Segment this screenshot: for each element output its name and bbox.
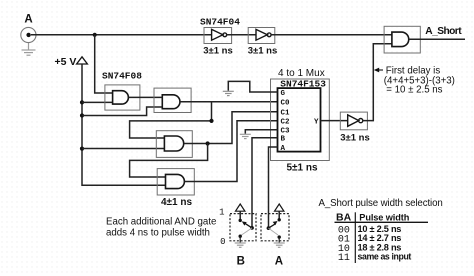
input connector A — [21, 27, 36, 42]
svg-text:C0: C0 — [281, 100, 291, 108]
svg-text:1: 1 — [219, 207, 224, 217]
svg-text:G: G — [281, 90, 286, 98]
junction: loop corner dot — [209, 119, 213, 123]
wire: U2B out to mux C0 — [180, 101, 278, 103]
svg-text:A: A — [281, 145, 286, 153]
junction: A tap — [93, 33, 97, 37]
AND U4 final — [392, 32, 409, 47]
wire: A_Short output — [409, 38, 465, 40]
power +5V symbol — [77, 57, 88, 64]
junction: rail to U2B — [80, 113, 84, 117]
wire: A tap down to AND U2A top input — [95, 35, 113, 93]
ground (mux G pin) — [223, 91, 234, 95]
annotation: first delay arrow — [374, 68, 383, 73]
wire: rail to U2B bottom input — [82, 107, 162, 116]
svg-text:11: 11 — [338, 253, 350, 264]
svg-text:Y: Y — [314, 118, 319, 126]
annotation: first delay text — [384, 66, 455, 96]
wire: mux G pin to ground — [228, 81, 277, 92]
wire: U2B out loop down to U2C top input — [130, 102, 212, 138]
svg-text:same as input: same as input — [358, 252, 412, 262]
svg-text:SN74F04: SN74F04 — [200, 16, 240, 27]
junction: U2C out tap — [206, 141, 210, 145]
wire: mux Y to inverter U1C — [321, 120, 348, 122]
inverter U1A — [212, 29, 227, 40]
switch B box — [230, 214, 256, 241]
wire: rail to U2A bottom input — [82, 101, 113, 103]
switch B lever — [239, 219, 254, 235]
svg-text:C2: C2 — [281, 119, 291, 127]
wire: mux A select to switch A — [269, 147, 278, 228]
AND U2C box — [156, 131, 192, 158]
wire: U1C out up to final AND bottom input — [363, 44, 392, 121]
ground (input connector) — [22, 43, 36, 56]
svg-text:5±1 ns: 5±1 ns — [286, 162, 317, 173]
svg-text:Pulse width: Pulse width — [359, 213, 409, 223]
wire: rail to U2C bottom input — [82, 148, 164, 150]
wire: U1A to U1B — [227, 34, 256, 36]
svg-text:C3: C3 — [281, 128, 291, 136]
svg-text:B: B — [237, 256, 245, 268]
wire: U1B to final AND top input — [271, 34, 392, 36]
AND U2B — [162, 95, 180, 109]
switch B ground post — [239, 235, 242, 243]
AND U2D box — [157, 169, 194, 195]
AND U2B box — [154, 88, 191, 112]
junction: rail to U2A — [80, 100, 84, 104]
annotation: AND gate note — [106, 216, 216, 238]
wire: A to inverter chain — [31, 34, 212, 36]
table vertical rule — [354, 212, 356, 263]
wire: mux B select to switch B — [252, 138, 278, 228]
switch A power arrow — [275, 204, 284, 220]
wire: +5V rail down and to U2D bottom input — [82, 64, 166, 185]
wire: U2C out loop down to U2D top input — [130, 144, 208, 178]
switch A ground post — [278, 235, 281, 242]
table pulse width values — [358, 224, 412, 262]
inverter U1B box — [248, 28, 275, 44]
svg-text:adds 4 ns to pulse width: adds 4 ns to pulse width — [106, 228, 210, 239]
AND U2D — [166, 174, 185, 188]
wire: U2A out to U2B top input — [128, 96, 162, 98]
switch A lever — [267, 218, 281, 235]
svg-text:4±1 ns: 4±1 ns — [161, 197, 192, 208]
wire: U2D out to mux C2 riser — [184, 121, 277, 182]
svg-text:A: A — [24, 14, 32, 26]
ground (switch B) — [235, 243, 246, 247]
switch B power arrow — [236, 204, 245, 220]
svg-text:A_Short pulse width selection: A_Short pulse width selection — [319, 198, 443, 209]
AND U2A box — [105, 85, 140, 110]
table header rule — [335, 221, 429, 223]
AND U2A — [113, 91, 129, 104]
svg-text:B: B — [281, 136, 286, 144]
wire: mux C3 to ground — [245, 130, 277, 134]
mux outer box — [271, 79, 330, 161]
svg-text:= 10 ± 2.5 ns: = 10 ± 2.5 ns — [386, 85, 442, 96]
switch A box — [261, 214, 289, 241]
AND U2C — [164, 136, 183, 151]
svg-text:+5 V: +5 V — [55, 56, 77, 68]
mux U3 (SN74F153) — [278, 88, 321, 152]
inverter U1A box — [204, 28, 232, 44]
table BA column values — [338, 225, 350, 264]
svg-text:0: 0 — [220, 237, 225, 247]
svg-text:Each additional AND gate: Each additional AND gate — [106, 216, 216, 227]
svg-text:3±1 ns: 3±1 ns — [248, 46, 278, 57]
ground (switch A) — [274, 243, 285, 247]
svg-text:3±1 ns: 3±1 ns — [203, 46, 233, 57]
svg-text:C1: C1 — [281, 110, 291, 118]
AND U4 final box — [384, 26, 420, 53]
svg-text:A_Short: A_Short — [425, 26, 462, 37]
svg-text:3±1 ns: 3±1 ns — [340, 132, 370, 143]
inverter U1B — [256, 29, 271, 40]
junction: rail to U2C — [80, 147, 84, 151]
inverter U1C — [348, 115, 363, 126]
svg-text:A: A — [275, 256, 283, 268]
wire: U2C out to mux C1 riser — [184, 112, 278, 144]
inverter U1C box — [340, 112, 367, 130]
svg-text:SN74F08: SN74F08 — [102, 71, 142, 82]
ground (mux C3) — [240, 134, 251, 138]
